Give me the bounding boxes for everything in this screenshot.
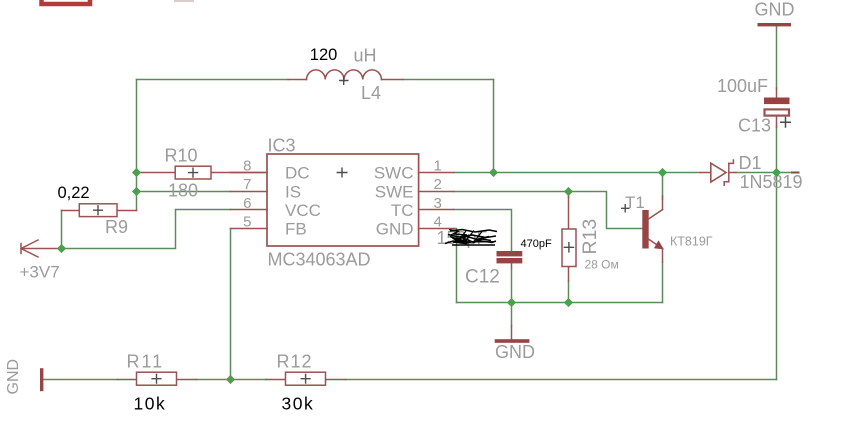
svg-text:3: 3 (434, 195, 442, 212)
pin 5 FB (231, 213, 307, 238)
pin 1 SWC (374, 157, 454, 182)
svg-text:R9: R9 (105, 217, 128, 237)
diode D1 1N5819 (701, 153, 803, 192)
node R13 top (564, 187, 573, 196)
svg-text:GND: GND (5, 359, 22, 395)
svg-text:0,22: 0,22 (58, 184, 90, 202)
node C12 gnd (507, 298, 516, 307)
svg-text:R12: R12 (277, 352, 313, 372)
wire TC net to C12 (454, 210, 512, 252)
wire R13 top stub (568, 192, 570, 198)
svg-text:+3V7: +3V7 (20, 263, 60, 282)
resistor R13 (562, 196, 619, 281)
resistor R9 (58, 184, 137, 237)
resistor R12 (266, 352, 346, 414)
svg-text:SWC: SWC (374, 164, 414, 183)
svg-text:C12: C12 (465, 267, 500, 288)
svg-text:uH: uH (354, 46, 377, 66)
svg-text:TC: TC (391, 201, 414, 220)
wire bottom row left (44, 379, 118, 381)
wire R13 bottom green (568, 281, 570, 303)
svg-text:R13: R13 (579, 219, 601, 255)
node SWC / L4 (489, 168, 498, 177)
frame fragment top-left (42, 0, 195, 4)
pin 8 DC (231, 157, 310, 182)
svg-text:28 Ом: 28 Ом (585, 258, 619, 272)
svg-text:MC34063AD: MC34063AD (268, 250, 371, 270)
svg-text:IS: IS (285, 182, 301, 201)
wire top net horizontal left of L4 (137, 79, 289, 81)
svg-text:10k: 10k (134, 394, 167, 414)
node R13 gnd (564, 298, 573, 307)
svg-text:2: 2 (434, 176, 442, 193)
node 180 tap (132, 187, 141, 196)
svg-text:T1: T1 (625, 193, 645, 212)
svg-text:120: 120 (310, 46, 338, 64)
node collector tap (658, 168, 667, 177)
wire R9 right vertical (61, 211, 63, 249)
wire C13 bottom (776, 126, 778, 173)
svg-text:470pF: 470pF (521, 238, 552, 250)
svg-text:7: 7 (243, 176, 251, 193)
svg-text:1N5819: 1N5819 (740, 172, 803, 192)
svg-text:VCC: VCC (285, 201, 321, 220)
transistor T1 KT819G (621, 193, 713, 262)
ground bottom center (495, 326, 535, 362)
inductor L4 (288, 46, 403, 104)
svg-text:C13: C13 (738, 116, 771, 136)
wire between R11 and R12 (197, 379, 267, 381)
wire top net horizontal right of L4 (403, 79, 494, 81)
svg-text:8: 8 (243, 157, 251, 174)
node C13 / D1 (772, 168, 781, 177)
wire pin7 row (180 net) (137, 191, 231, 193)
wire C13 top (776, 26, 778, 89)
node FB divider (226, 375, 235, 384)
pin 2 SWE (375, 176, 454, 201)
svg-text:IC3: IC3 (268, 136, 296, 156)
svg-text:SWE: SWE (375, 182, 414, 201)
svg-text:100uF: 100uF (717, 76, 768, 96)
svg-text:5: 5 (243, 213, 251, 230)
wire gnd stem below bus (511, 303, 513, 327)
wire top net vertical into pin1 row (493, 80, 495, 173)
resistor R10 (137, 146, 268, 201)
svg-text:6: 6 (243, 195, 251, 212)
pin 6 VCC (231, 195, 321, 220)
svg-text:R11: R11 (127, 352, 165, 372)
svg-text:1: 1 (434, 157, 442, 174)
svg-text:R10: R10 (165, 146, 198, 166)
wire left vertical bus x=136 (136, 80, 138, 211)
wire FB net vertical (230, 229, 232, 380)
capacitor C13 (717, 76, 791, 136)
svg-text:КТ819Г: КТ819Г (670, 235, 713, 249)
wire bottom bus (457, 302, 663, 304)
node R10 left (132, 168, 141, 177)
svg-text:GND: GND (755, 0, 795, 19)
svg-text:GND: GND (376, 220, 414, 239)
wire diode cathode to end (736, 172, 791, 174)
svg-text:L4: L4 (361, 83, 381, 103)
svg-text:FB: FB (285, 220, 307, 239)
op-amp box IC3 MC34063AD (267, 136, 419, 270)
supply +3V7 (20, 240, 60, 282)
scribbled old value 150pF (437, 228, 498, 248)
wire SWC output net (454, 172, 701, 174)
svg-text:DC: DC (285, 164, 310, 183)
wire output end tip (791, 172, 800, 174)
wire +3V7 net (62, 210, 231, 249)
wire emitter to bus (662, 262, 664, 303)
capacitor C12 (465, 251, 522, 303)
resistor R11 (118, 352, 197, 414)
pin 3 TC (391, 195, 454, 220)
pin 4 GND (376, 213, 454, 238)
wire right of R12 (346, 379, 777, 381)
pin 7 IS (231, 176, 302, 201)
wire IC gnd net down (454, 229, 457, 303)
svg-text:180: 180 (168, 181, 198, 201)
svg-text:30k: 30k (282, 394, 315, 414)
ground top right (755, 0, 795, 26)
ground bottom left rotated (5, 359, 43, 395)
node +3V7 (57, 244, 66, 253)
svg-text:GND: GND (495, 342, 535, 362)
wire right feedback vertical (776, 173, 778, 380)
svg-text:D1: D1 (739, 153, 762, 173)
wire collector drop (662, 173, 664, 200)
wire SWE net to base (454, 192, 643, 229)
